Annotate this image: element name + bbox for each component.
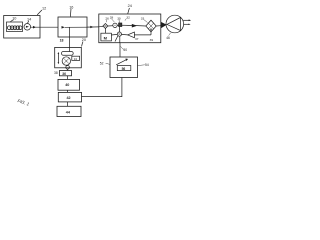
output line top [183,19,190,21]
mirror cross [64,58,69,63]
main beam line inside [99,25,146,27]
amplifier triangle [128,32,135,38]
wire A to B1 [67,76,69,80]
arrow into modulator [62,26,65,29]
inner wire horizontal [65,26,87,28]
mixer circle [117,32,121,36]
svg-text:26: 26 [105,16,109,20]
svg-text:16: 16 [69,5,73,9]
leader for 14 [28,21,29,23]
svg-text:38: 38 [54,71,58,75]
label 24 [128,4,132,8]
processor box 24 [99,14,161,43]
svg-text:32: 32 [126,15,130,19]
leader for 20 [82,42,83,47]
mirror circle [62,57,70,65]
svg-text:39: 39 [150,38,154,42]
wire scanner to box A [67,69,69,70]
label 16 [69,5,73,9]
label 10 [12,16,16,20]
tilt double arrow [57,54,59,63]
label 18 [60,38,64,42]
svg-text:18: 18 [60,38,64,42]
element rect 30 [119,23,122,27]
svg-text:14: 14 [27,17,31,21]
svg-text:52: 52 [100,62,104,66]
shaft joint circle [66,66,70,70]
motor rect 34 [72,56,80,60]
capsule element [62,52,74,56]
inscribed cone [167,17,181,30]
wire B2 to C [67,102,69,106]
svg-text:44: 44 [66,111,71,115]
modulator box 16 [58,17,87,37]
box A [60,71,72,76]
wire amp to mixer [122,33,128,36]
light source box [4,16,40,39]
svg-text:20: 20 [82,38,86,42]
wire diamond1 to M box [104,29,106,34]
leader for 16 [69,9,72,17]
leader for 24 [128,8,130,14]
M box [101,33,112,41]
svg-text:FIG. 1: FIG. 1 [17,98,30,107]
FIG label [17,98,30,107]
leader for 12 [37,10,42,15]
down arrow from diamond [150,29,152,32]
svg-text:42: 42 [67,96,71,100]
modulator diamond 26 [103,24,108,29]
arrow inside lens [26,26,29,28]
output element circle [166,15,184,33]
label 39 under diamond drop [150,38,154,42]
wire: source to modulator box [31,26,58,28]
coil box 10 [7,22,23,32]
wire M box to mixer [111,33,117,36]
label 20 [82,38,86,42]
wire mixer down [119,36,121,43]
arrowhead after modulator [90,26,93,29]
svg-text:34: 34 [74,57,78,61]
svg-text:40: 40 [65,83,69,87]
wire processor down to switch box [119,43,121,57]
label 54 [145,63,149,67]
label 12 [42,7,46,11]
wire B1 to B2 [67,90,69,92]
leader for 10 [10,20,13,22]
label 37 under feedback [135,37,139,41]
in-box labels [105,16,109,20]
arrowhead after lens [33,26,36,29]
switch box [110,57,138,78]
svg-text:50: 50 [123,48,127,52]
svg-text:46: 46 [166,36,170,40]
svg-text:24: 24 [128,4,132,8]
fat arrow to output [161,22,167,28]
label 52 [100,62,104,66]
wire mixer up to beam [119,26,121,32]
wire: modulator down to scanner [68,37,70,52]
box B2 [58,92,81,102]
inner wire vertical drop [68,27,70,37]
label 14 [27,17,31,21]
label 38 left of box A [54,71,58,75]
switch inner rect 56 [117,66,131,71]
bold arrow on beam [132,24,137,28]
feedback wire [134,34,151,36]
label 50 [123,48,127,52]
svg-text:56: 56 [122,67,126,71]
svg-text:37: 37 [135,37,139,41]
coil filament [7,26,22,30]
box C [57,106,81,116]
box B1 [58,79,80,90]
wire mirror to joint [66,64,67,66]
wire B2 right to switch box [82,78,122,97]
splitter diamond [146,20,156,32]
label 33 near splitter [141,16,145,20]
diagonal stub [115,36,118,42]
output line bottom [184,23,190,25]
svg-text:12: 12 [42,7,46,11]
switch arrow [116,60,126,65]
lens 14 [24,24,31,31]
label 46 under output [166,36,170,40]
scanner box [55,47,82,67]
svg-text:36: 36 [62,72,66,76]
element circle 28 [113,23,117,27]
wire: modulator box to processor box [87,26,99,28]
svg-text:M: M [104,35,108,40]
wire diamond to box edge [156,25,161,27]
svg-text:54: 54 [145,63,149,67]
